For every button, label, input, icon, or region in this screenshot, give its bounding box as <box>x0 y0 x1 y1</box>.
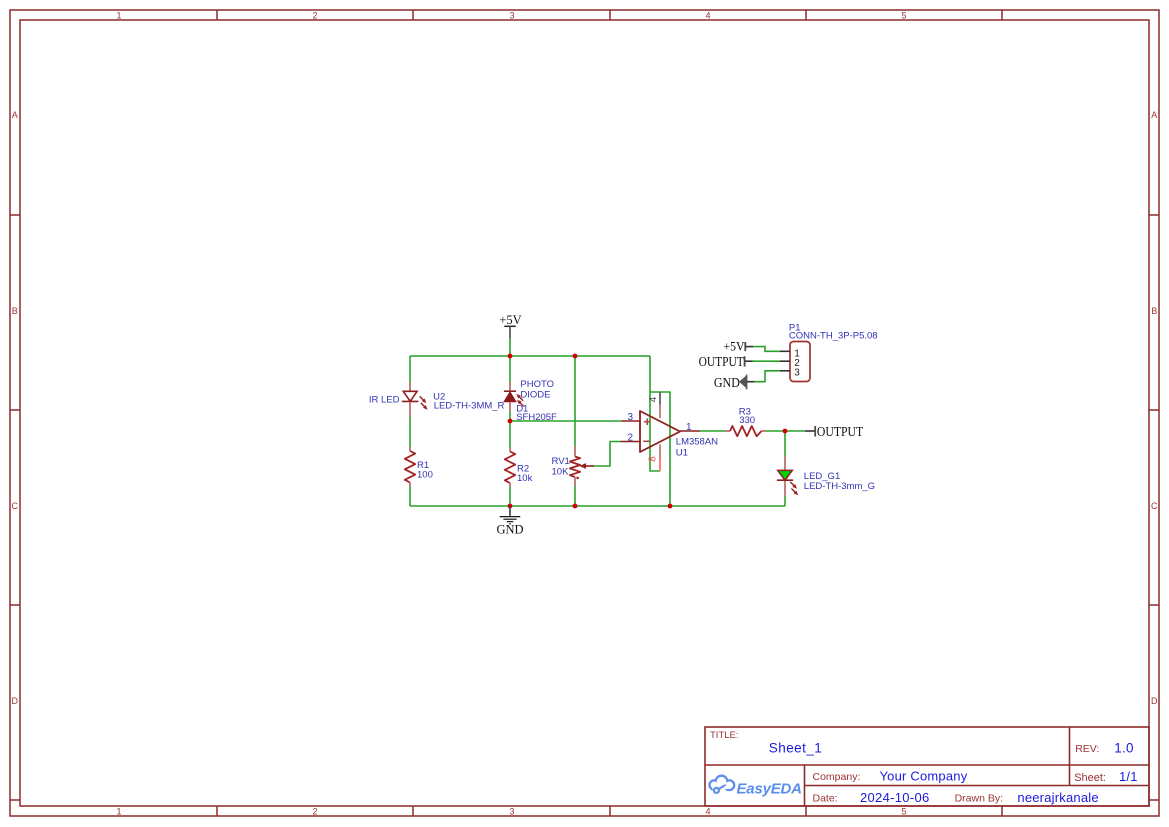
svg-text:U1: U1 <box>676 447 688 458</box>
svg-text:1: 1 <box>686 422 692 433</box>
wire op-amp pin 4 to ground rail <box>650 392 670 506</box>
resistor R3 <box>725 426 766 436</box>
svg-text:B: B <box>12 306 18 316</box>
junction node +5V / D1 <box>508 354 513 359</box>
svg-text:SFH205F: SFH205F <box>516 412 557 423</box>
svg-text:B: B <box>1151 306 1157 316</box>
svg-text:2: 2 <box>627 432 633 443</box>
svg-text:LED-TH-3MM_R: LED-TH-3MM_R <box>434 401 505 412</box>
LED LED_G1 <box>777 457 798 497</box>
wire left branch upper <box>409 356 411 382</box>
svg-text:5: 5 <box>901 806 906 816</box>
svg-text:2: 2 <box>312 806 317 816</box>
svg-text:D: D <box>12 696 19 706</box>
svg-text:4: 4 <box>705 806 710 816</box>
svg-text:3: 3 <box>509 806 514 816</box>
svg-text:LM358AN: LM358AN <box>676 437 718 448</box>
svg-text:Your Company: Your Company <box>880 768 968 783</box>
svg-text:4: 4 <box>705 10 710 20</box>
junction RV1 ground rail <box>573 504 578 509</box>
resistor R1 <box>405 447 415 487</box>
svg-text:Date:: Date: <box>813 792 838 804</box>
power flag +5V at connector <box>724 339 754 353</box>
svg-text:GND: GND <box>496 522 523 536</box>
op-amp U1 <box>621 392 701 471</box>
connector P1 <box>780 342 810 382</box>
net flag OUTPUT right <box>805 425 864 440</box>
svg-text:+5V: +5V <box>499 313 521 327</box>
junction R1-R2 ground rail <box>508 504 513 509</box>
svg-text:3: 3 <box>509 10 514 20</box>
wire RV1 top <box>574 356 576 446</box>
svg-text:330: 330 <box>739 415 755 426</box>
junction node +5V / RV1 <box>573 354 578 359</box>
svg-text:OUTPUT: OUTPUT <box>817 425 864 440</box>
wire ground bottom rail <box>410 505 785 507</box>
svg-text:4: 4 <box>648 396 659 402</box>
svg-text:3: 3 <box>794 368 800 379</box>
svg-text:GND: GND <box>714 376 740 391</box>
svg-text:LED-TH-3mm_G: LED-TH-3mm_G <box>804 481 875 492</box>
svg-text:RV1: RV1 <box>552 456 570 467</box>
resistor R2 <box>505 448 515 487</box>
wire RV1 wiper to op-amp pin 2 <box>594 442 621 467</box>
wire OUTPUT flag to P1 pin 2 <box>753 360 781 362</box>
junction OUTPUT node <box>783 429 788 434</box>
svg-text:1: 1 <box>116 10 121 20</box>
LED U2 <box>402 382 428 417</box>
net flag OUTPUT at connector <box>699 355 753 370</box>
svg-text:5: 5 <box>901 10 906 20</box>
svg-text:D: D <box>1151 696 1158 706</box>
svg-text:TITLE:: TITLE: <box>710 730 739 741</box>
wire node A to op-amp pin 3 <box>510 420 622 422</box>
svg-text:PHOTO: PHOTO <box>520 379 554 390</box>
svg-text:10K: 10K <box>552 467 570 478</box>
wire middle branch upper <box>509 356 511 382</box>
svg-text:Company:: Company: <box>813 771 861 783</box>
svg-text:2024-10-06: 2024-10-06 <box>860 790 930 805</box>
svg-text:10k: 10k <box>517 473 533 484</box>
wire left branch lower <box>409 485 411 506</box>
svg-text:8: 8 <box>648 456 659 462</box>
svg-text:IR LED: IR LED <box>369 395 400 406</box>
svg-text:CONN-TH_3P-P5.08: CONN-TH_3P-P5.08 <box>789 331 878 342</box>
svg-text:C: C <box>1151 501 1158 511</box>
junction op-amp pin4 net / ground rail <box>668 504 673 509</box>
svg-text:Drawn By:: Drawn By: <box>955 792 1003 804</box>
svg-text:Sheet:: Sheet: <box>1074 772 1106 784</box>
svg-text:DIODE: DIODE <box>520 390 550 401</box>
svg-text:1/1: 1/1 <box>1119 769 1138 784</box>
svg-text:+5V: +5V <box>724 339 745 353</box>
ground flag GND at connector <box>714 375 755 391</box>
wire left branch middle <box>409 417 411 448</box>
wire middle branch node A to R2 <box>509 412 511 449</box>
svg-text:Sheet_1: Sheet_1 <box>769 740 822 755</box>
svg-text:1.0: 1.0 <box>1114 741 1133 756</box>
ground flag GND <box>496 506 523 536</box>
wire R3 to OUTPUT node <box>766 430 805 432</box>
svg-text:OUTPUT: OUTPUT <box>699 355 745 370</box>
wire R2 to ground rail <box>509 487 511 507</box>
svg-text:EasyEDA: EasyEDA <box>737 781 802 798</box>
svg-text:3: 3 <box>627 412 633 423</box>
power flag +5V <box>499 313 521 356</box>
svg-text:C: C <box>12 501 19 511</box>
wire +5V rail to op-amp pin 8 <box>650 356 660 471</box>
wire +5V flag to P1 pin 1 <box>753 347 780 352</box>
wire +5V top rail <box>410 355 650 357</box>
wire LED_G1 to ground rail <box>784 496 786 506</box>
svg-text:100: 100 <box>417 470 433 481</box>
svg-text:neerajrkanale: neerajrkanale <box>1017 790 1098 805</box>
potentiometer RV1 <box>570 446 594 486</box>
svg-text:1: 1 <box>116 806 121 816</box>
wire OUTPUT node to LED_G1 <box>784 431 786 457</box>
wire RV1 bottom <box>574 486 576 506</box>
photodiode D1 <box>504 382 524 412</box>
svg-text:2: 2 <box>312 10 317 20</box>
svg-text:A: A <box>1151 110 1157 120</box>
wire op-amp output to R3 <box>700 430 725 432</box>
svg-text:REV:: REV: <box>1075 743 1099 755</box>
wire GND flag to P1 pin 3 <box>755 371 780 382</box>
svg-text:A: A <box>12 110 18 120</box>
junction node A (D1 / R2 / pin3) <box>508 419 513 424</box>
